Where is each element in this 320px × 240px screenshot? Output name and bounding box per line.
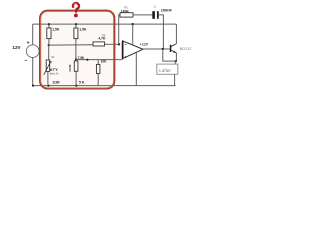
resistor R3 10K [96,64,100,73]
op-amp minus input mark [125,43,127,45]
svg-text:1180: 1180 [52,80,59,84]
wire source to bottom rail [32,58,34,86]
svg-text:4,7K: 4,7K [98,37,106,41]
sensor arrow [44,62,51,75]
wire R2 bottom lead [75,39,77,60]
wire bottom ground rail [33,85,176,87]
svg-text:5 K: 5 K [79,81,85,85]
wire capacitor to output node [159,15,164,49]
svg-text:1,5K: 1,5K [52,28,60,32]
junction dot supply tap [132,23,134,25]
svg-text:Lüfter: Lüfter [159,68,171,73]
node A junction dot divider1 [48,44,50,46]
junction dot R2 top [75,23,77,25]
junction dot fan node [175,60,177,62]
transistor collector diagonal [171,44,176,47]
red highlight box inner tint [41,12,114,89]
junction dot mid net [86,59,88,61]
resistor R1 1,5K [47,28,51,39]
svg-text:10K: 10K [101,60,108,64]
junction dot minus input node [118,43,120,45]
wire sensor to bottom rail [47,71,49,85]
wire node A to R6 [49,44,93,46]
svg-text:Best.Nr.: Best.Nr. [50,72,60,76]
wire R2 top lead [75,24,77,28]
wire R1 top lead [48,24,50,28]
wire pot to bottom rail [75,71,77,85]
wire R3 top lead [97,60,99,65]
node B junction dot divider2 [75,58,77,60]
potentiometer arrow [69,66,71,72]
voltage source V1 12V [26,45,39,58]
resistor R6 4,7K [93,42,105,46]
wire fan node to fan box [174,61,176,64]
wire fan box to ground rail [174,74,176,86]
junction dot pot-bottom [75,85,77,87]
op-amp plus input mark [125,56,127,58]
svg-text:+12V: +12V [140,42,149,46]
junction dot bottom-left [32,85,34,87]
wire left drop to source [32,24,34,45]
potentiometer P1 body [74,61,78,71]
wire op-amp V- pin to ground rail [135,53,137,86]
sensor KTY body [46,60,50,71]
wire R6 to minus node [105,43,120,45]
wire op-amp output to base [143,48,170,50]
capacitor C plate 2 [157,11,159,19]
svg-text:12V: 12V [12,45,21,50]
svg-text:140K: 140K [121,10,130,14]
wire top +12V rail [33,23,177,25]
wire R1 bottom lead [48,39,50,46]
emitter arrowhead [173,51,176,54]
wire output branch down [163,49,176,61]
svg-text:BD137: BD137 [180,46,192,51]
wire mid net to op-amp plus input [76,59,123,61]
red question mark [73,3,79,17]
resistor R2 1,5K [74,28,78,39]
svg-text:KTY: KTY [50,67,58,72]
polarity minus [25,59,27,61]
op-amp U1 triangle [123,41,143,59]
junction dot output node [162,48,164,50]
wire node A to sensor [48,45,50,60]
wire emitter down [175,53,177,61]
svg-text:↑ω: ↑ω [50,55,55,59]
fan box Luefter [157,64,178,74]
transistor emitter diagonal [171,50,176,53]
wire R5 to capacitor [133,14,152,16]
transistor Q1 base bar [170,45,172,52]
resistor R5 140K [120,13,133,17]
svg-text:ϑ: ϑ [50,61,52,65]
junction dot R1 top [48,23,50,25]
capacitor C plate 1 [152,11,155,19]
red highlight inner sheen [41,11,114,88]
wire collector to top rail [175,24,177,44]
wire minus node up to R5 [119,15,120,45]
wire supply to op-amp [132,24,134,45]
svg-text:100nF: 100nF [161,8,173,13]
svg-text:1,5K: 1,5K [79,28,87,32]
wire R3 to bottom rail [97,74,99,86]
red highlight rounded box [40,11,114,89]
polarity plus [27,41,30,44]
junction dot sensor-bottom [47,85,49,87]
